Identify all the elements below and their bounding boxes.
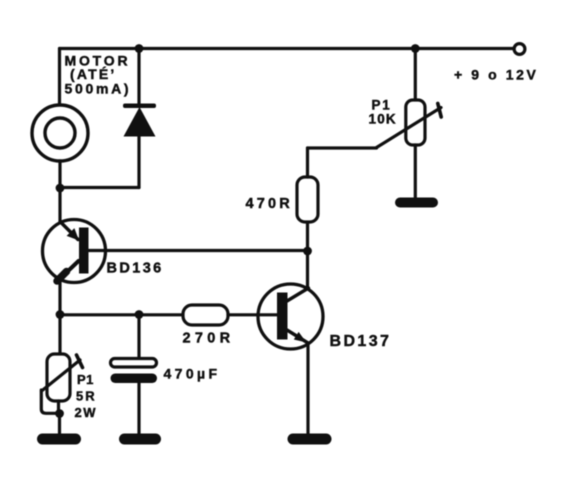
ground for BD137 xyxy=(288,434,332,445)
label 470R xyxy=(246,196,293,212)
resistor 270R xyxy=(183,305,228,325)
svg-text:10K: 10K xyxy=(369,112,397,127)
node junction P1 top on rail xyxy=(411,44,420,53)
wire top supply rail xyxy=(60,47,514,50)
svg-text:+ 9 o 12V: + 9 o 12V xyxy=(454,67,539,83)
wire motor bottom lead xyxy=(58,161,61,188)
svg-text:500mA): 500mA) xyxy=(65,81,132,97)
svg-text:5R: 5R xyxy=(76,389,97,404)
wire BD137 collector to node xyxy=(306,251,309,289)
label BD137 xyxy=(330,333,392,350)
wire node to P1 5R top xyxy=(58,315,61,355)
resistor 470R xyxy=(297,148,318,251)
wire emitter row to 270R xyxy=(60,313,183,316)
node junction capacitor top xyxy=(135,310,144,319)
svg-text:2W: 2W xyxy=(75,405,98,420)
potentiometer P1 10K xyxy=(377,49,442,199)
wire down to BD136 xyxy=(58,188,61,222)
node junction 470R bottom / BD136 base / BD137 collector xyxy=(303,247,312,256)
node junction diode top on rail xyxy=(135,44,144,53)
svg-text:P1: P1 xyxy=(372,98,392,113)
wire P1 5R to ground xyxy=(58,414,61,435)
wire 470R top to P1 wiper xyxy=(308,146,377,149)
transistor Q2 BD137 (NPN) xyxy=(258,284,323,349)
terminal +9-12V supply (open circle) xyxy=(514,44,525,55)
svg-text:270R: 270R xyxy=(183,331,235,347)
rheostat P1 5R 2W xyxy=(41,354,82,414)
label P1 5R 2W xyxy=(75,372,98,420)
label BD136 xyxy=(107,261,164,277)
diode D1 flyback xyxy=(123,49,156,188)
wire BD137 emitter to ground xyxy=(306,343,309,434)
node junction P1 5R bottom xyxy=(55,409,64,418)
label P1 10K xyxy=(369,98,397,127)
node junction BD136 collector / emitter row xyxy=(56,310,65,319)
wire BD136 base to node xyxy=(89,249,308,252)
svg-text:P1: P1 xyxy=(77,372,94,387)
label +9 o 12V xyxy=(454,67,539,83)
ground for capacitor xyxy=(119,434,161,445)
ground for P1 5R xyxy=(37,434,81,445)
ground for P1 10K xyxy=(395,198,438,208)
svg-text:BD137: BD137 xyxy=(330,333,392,350)
transistor Q1 BD136 (PNP) xyxy=(43,220,106,283)
label 470uF xyxy=(164,366,221,382)
svg-text:470µF: 470µF xyxy=(164,366,221,382)
label MOTOR (ATE 500mA) xyxy=(65,53,132,97)
wire left drop from rail to motor xyxy=(58,49,61,106)
node junction motor/diode/BD136 emitter xyxy=(56,184,65,193)
wire BD136 collector down to node xyxy=(58,280,61,315)
svg-text:BD136: BD136 xyxy=(107,261,164,277)
wire diode bottom to motor bottom xyxy=(60,186,139,189)
capacitor C1 470uF xyxy=(111,315,158,435)
motor M1 xyxy=(32,105,88,161)
label 270R xyxy=(183,331,235,347)
svg-text:470R: 470R xyxy=(246,196,293,212)
wire 270R to BD137 base xyxy=(228,313,277,316)
